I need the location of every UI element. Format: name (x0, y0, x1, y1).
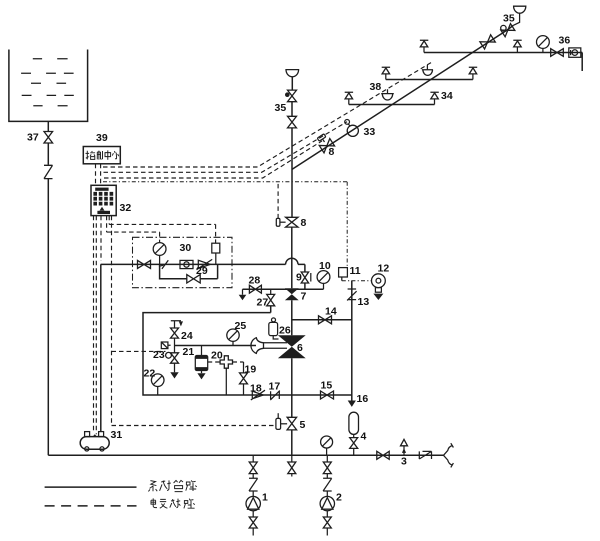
wire valve 5 to bottom main (291, 430, 293, 455)
svg-text:4: 4 (361, 431, 367, 443)
svg-text:7: 7 (301, 291, 307, 303)
svg-text:12: 12 (378, 263, 390, 275)
control center box 39 (83, 147, 120, 164)
svg-text:32: 32 (120, 202, 132, 214)
svg-text:39: 39 (96, 132, 108, 144)
middle branch header (386, 79, 473, 81)
vent (top header left) (420, 40, 428, 52)
valve 24 (171, 328, 179, 338)
wire horizontal header at 289 (243, 288, 324, 290)
svg-text:15: 15 (321, 380, 333, 392)
pump 33 (347, 125, 358, 136)
wire valve 9 down (304, 283, 306, 289)
vent (middle header right) (469, 67, 477, 79)
valve 8 (diagonal, with actuator) (315, 133, 334, 153)
flow meter (box with circle) (180, 260, 193, 268)
vent (top header mid) (513, 40, 521, 52)
drain arrow (below 21) (197, 373, 205, 379)
svg-text:33: 33 (364, 126, 376, 138)
accumulator 21 (201, 346, 203, 356)
device 32 (solenoid terminal block) (91, 185, 116, 215)
wire dashed 32 to component in box 30 (109, 216, 215, 243)
pump 31 (compressor) (80, 429, 122, 451)
legend: system piping (45, 486, 137, 488)
valve (col 1 lower) (249, 517, 257, 528)
drain arrow (below 23) (170, 372, 178, 378)
text 电气线路 (drawn strokes) (151, 498, 195, 508)
wire main supply line through box 30 with bridge over center pipe (101, 258, 305, 264)
valve (diagonal, mid) (480, 35, 495, 49)
svg-text:17: 17 (269, 381, 281, 393)
union 13 (break symbol) (347, 289, 357, 300)
gauge (bottom) (321, 436, 333, 448)
valve (inlet, box 30) (138, 260, 151, 268)
svg-text:10: 10 (319, 260, 331, 272)
wire dashed bus to valve 8 actuator (diagonal) (104, 141, 322, 178)
svg-text:29: 29 (196, 265, 208, 277)
svg-text:24: 24 (181, 330, 193, 342)
svg-text:37: 37 (27, 132, 39, 144)
component (box 30 small rect) (212, 243, 220, 253)
wire dashed bus to pump 33 (104, 122, 348, 173)
pump column 2 (326, 455, 328, 462)
pressure switch 12 (372, 274, 386, 288)
text 系统管路 (drawn strokes) (148, 480, 196, 491)
wire (47, 143, 49, 165)
text 控制中心 (drawn strokes) (86, 150, 119, 159)
valve 3 (377, 451, 389, 459)
vent 34 (lower header right) (430, 92, 438, 104)
valve 29 (187, 275, 200, 283)
sensor tick symbol (159, 260, 168, 269)
flow meter (top right box) (569, 48, 581, 57)
svg-text:27: 27 (257, 297, 269, 309)
svg-text:31: 31 (111, 429, 123, 441)
svg-text:35: 35 (275, 102, 287, 114)
wire bypass (160, 264, 218, 278)
wire dashed branch to solenoid valve 23 (112, 350, 166, 352)
svg-text:3: 3 (401, 456, 407, 468)
drain stub valve (center) (291, 455, 293, 462)
tank water level dashes (21, 59, 74, 106)
wire dashed 20 to valve 19 (233, 361, 244, 363)
top discharge header (424, 52, 582, 54)
gauge (box 30) (159, 255, 161, 264)
vent (middle header left) (382, 67, 390, 79)
wire dashed 32 to pipe corner (100, 216, 102, 261)
svg-text:6: 6 (297, 342, 303, 354)
valve 9 (301, 272, 308, 283)
svg-text:5: 5 (300, 419, 306, 431)
valve 36 (551, 49, 564, 57)
valve (col 2 lower) (323, 517, 331, 528)
wire to discharge arrow 16 (351, 394, 353, 401)
air intake (triangle) (401, 439, 408, 445)
solenoid box (23) (161, 342, 168, 349)
svg-text:9: 9 (296, 272, 302, 284)
wire center pipe down (291, 128, 293, 217)
wire pilot sub-line (175, 345, 257, 347)
gauge 10 (323, 283, 325, 289)
wire dashed 32 down (to valves 23 and 5) (111, 216, 113, 426)
svg-text:26: 26 (279, 325, 291, 337)
svg-text:38: 38 (370, 81, 382, 93)
solenoid valve 35 (center) (285, 92, 290, 97)
pump column 1 (252, 455, 254, 462)
wire 20 down to loop bottom (225, 368, 227, 395)
valve (col 2 upper) (323, 462, 331, 474)
valve 7 (normally closed, filled) (285, 288, 299, 300)
sprinkler 38 (lower header) (381, 89, 394, 93)
svg-text:36: 36 (559, 35, 571, 47)
gauge 25 (232, 341, 234, 345)
pump 1 (246, 496, 260, 510)
svg-text:28: 28 (249, 275, 261, 287)
check valve (col 2) (323, 478, 332, 491)
svg-text:21: 21 (183, 346, 195, 358)
accumulator 4 (349, 412, 359, 434)
valve 5 (with actuator) (287, 417, 297, 430)
valve 37 (44, 132, 53, 144)
pump 2 (320, 496, 334, 510)
wire dashed 32 to gauge in box 30 (107, 216, 160, 243)
svg-text:2: 2 (336, 492, 342, 504)
wire dashed 39 to 32 (96, 164, 101, 186)
strainer 26 (272, 318, 276, 322)
wire dashed 32 to pump 31 (94, 216, 97, 434)
svg-text:14: 14 (325, 306, 337, 318)
drain arrow (left of 28) (242, 289, 244, 295)
valve (center pipe, second) (288, 116, 297, 128)
check valve (tank line) (44, 165, 53, 178)
valve 8 (center pipe, with actuator) (286, 217, 298, 227)
nozzle horn (251, 338, 264, 354)
solenoid valve 23 (166, 352, 172, 358)
gauge 22 (151, 374, 164, 387)
main diagonal supply pipe (292, 25, 514, 169)
wire dashed bus to sprinkler header (upper) (103, 61, 433, 167)
check valve (box 30) (197, 259, 213, 269)
main control valve 6 (filled) (278, 335, 306, 358)
svg-text:35: 35 (503, 13, 515, 25)
discharge arrow 16 (348, 401, 356, 407)
valve (below accumulator 4) (350, 438, 358, 449)
wire dash-dot bus to node 11 (103, 182, 347, 268)
box 30 (dash-dot enclosure) (133, 237, 233, 287)
svg-text:20: 20 (211, 350, 223, 362)
wire line 14 (292, 319, 352, 321)
svg-text:22: 22 (144, 368, 156, 380)
wire vertical from node 11 junction (351, 281, 353, 394)
check valve 18 (251, 390, 265, 400)
svg-text:23: 23 (153, 349, 165, 361)
wire center pipe down through valves 7/6 (291, 227, 293, 417)
4-way valve 20 (220, 356, 232, 368)
sprinkler (middle header) (422, 65, 433, 70)
wire dashed branch to valve 5 actuator (112, 425, 276, 427)
relief vent hook over valve 24 (171, 321, 181, 328)
wire left main drop (47, 179, 49, 456)
valve 14 (319, 316, 332, 324)
wire dash-dot 11 to pressure switch 12 (342, 280, 372, 282)
svg-text:18: 18 (250, 383, 262, 395)
valve 28 (249, 285, 261, 293)
valve (col 1 upper) (249, 462, 257, 474)
vent (lower header left) (345, 92, 353, 104)
valve 15 (321, 391, 334, 399)
hose coupling claw (444, 443, 454, 455)
svg-text:30: 30 (180, 242, 192, 254)
wire bottom main line (48, 454, 443, 456)
wire line down to valve 9 (304, 264, 306, 271)
valve 27 (270, 289, 272, 294)
svg-text:25: 25 (235, 320, 247, 332)
svg-text:8: 8 (329, 146, 335, 158)
svg-text:16: 16 (357, 393, 369, 405)
wire tank outlet (47, 121, 49, 131)
wire pump 31 outlet pipe up and right to box 30 (100, 264, 102, 431)
legend: electric wiring (dashed) (45, 505, 137, 507)
funnel vent (center pipe top) (286, 70, 299, 77)
svg-text:1: 1 (262, 492, 268, 504)
lower branch header (349, 104, 435, 106)
svg-text:11: 11 (350, 265, 361, 277)
wire pilot loop (27 down, left, bottom) (143, 313, 352, 395)
check valve (col 1) (249, 478, 258, 491)
svg-text:8: 8 (301, 217, 307, 229)
svg-text:19: 19 (245, 364, 257, 376)
wire top right outlet (581, 53, 582, 72)
funnel vent (top right) (513, 13, 519, 25)
gauge (top header) (542, 48, 544, 52)
check valve (outlet) (419, 451, 431, 459)
wire 21 to 20 (208, 361, 220, 363)
valve 19 (243, 362, 245, 373)
union 17 (270, 391, 280, 400)
svg-text:13: 13 (358, 296, 370, 308)
solenoid valve 35 (top right) (501, 25, 506, 30)
tank (water reservoir) (9, 50, 88, 122)
node 11 (junction box) (339, 268, 348, 277)
svg-text:34: 34 (441, 90, 453, 102)
